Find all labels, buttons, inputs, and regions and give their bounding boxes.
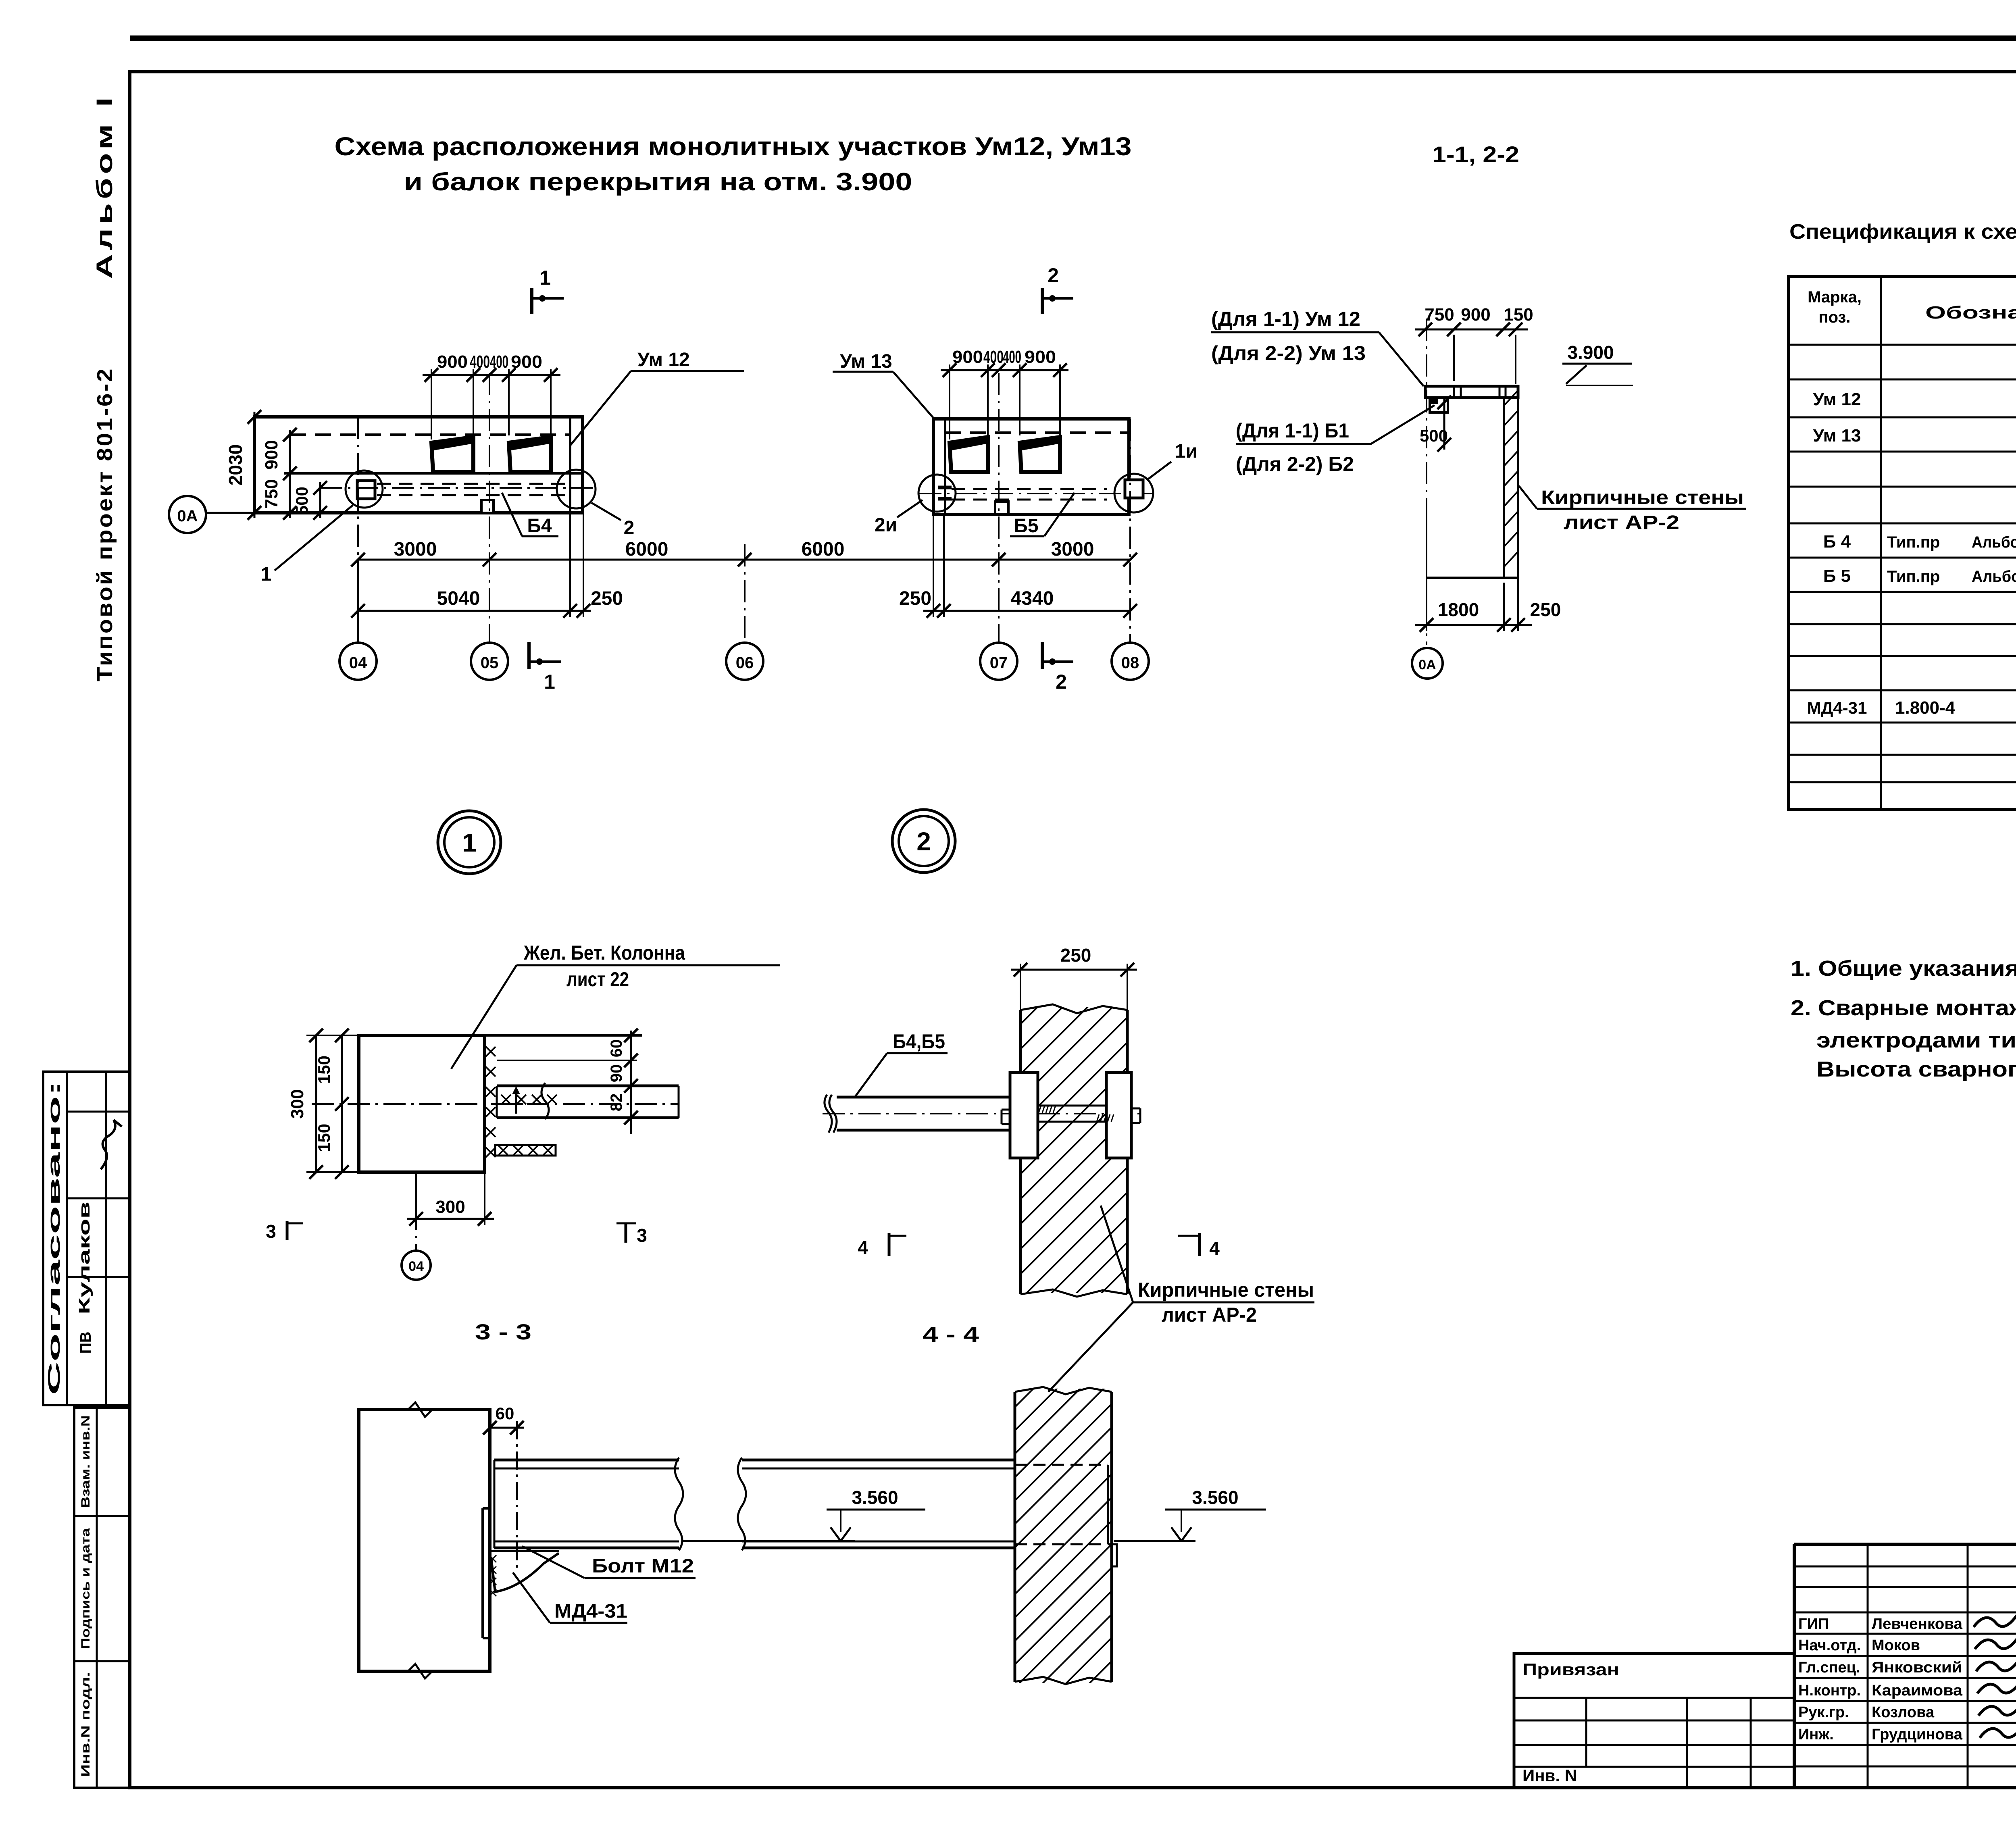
svg-text:Янковский: Янковский — [1872, 1659, 1962, 1676]
plan1 slab outline — [254, 417, 583, 513]
section3-3 bracket MD4-31 — [491, 1550, 559, 1552]
grid axis 08 dash-dot — [1129, 419, 1131, 643]
detail1 section mark 3 right — [616, 1222, 636, 1225]
section beam B1/B2 rect — [1430, 398, 1448, 412]
svg-text:1: 1 — [539, 267, 551, 289]
plan1 beam B4 hidden dashed lines — [377, 483, 568, 485]
svg-text:150: 150 — [314, 1056, 333, 1084]
svg-text:Ум 13: Ум 13 — [1813, 426, 1861, 446]
plan1 beam end rect in node 1 — [357, 481, 375, 499]
svg-text:(Для 1-1) Б1: (Для 1-1) Б1 — [1236, 419, 1349, 442]
svg-text:Б 4: Б 4 — [1823, 532, 1851, 552]
svg-text:Рук.гр.: Рук.гр. — [1798, 1704, 1849, 1721]
svg-text:250: 250 — [591, 588, 623, 609]
plan2 monolithic section Um13 quad A — [950, 437, 988, 472]
detail1 axis to grid circle 04 — [415, 1172, 417, 1252]
svg-text:Грудцинова: Грудцинова — [1872, 1726, 1963, 1743]
left stamp column box — [74, 1408, 130, 1788]
svg-text:3: 3 — [266, 1221, 276, 1242]
svg-text:1: 1 — [544, 671, 555, 693]
svg-text:3 - 3: 3 - 3 — [475, 1320, 531, 1344]
svg-text:400: 400 — [470, 352, 490, 372]
svg-text:Гл.спец.: Гл.спец. — [1798, 1659, 1860, 1676]
svg-text:2. Сварные монтажные соединени: 2. Сварные монтажные соединения элементо… — [1791, 996, 2016, 1020]
detail1 S-break in beam — [541, 1083, 549, 1119]
svg-text:и балок перекрытия на отм. 3.9: и балок перекрытия на отм. 3.900 — [404, 168, 912, 196]
grid circle 05 — [471, 643, 508, 680]
detail2 anchor plate left — [1010, 1072, 1038, 1158]
svg-text:900: 900 — [511, 352, 542, 372]
svg-text:0А: 0А — [1418, 657, 1436, 673]
svg-text:900: 900 — [262, 440, 281, 469]
svg-text:60: 60 — [608, 1039, 625, 1058]
svg-text:2030: 2030 — [225, 444, 246, 485]
plan2 slab outline — [933, 419, 1129, 514]
svg-text:Жел. Бет. Колонна: Жел. Бет. Колонна — [523, 941, 685, 964]
detail number circle 1 — [438, 811, 501, 874]
detail1 bottom x band — [495, 1145, 556, 1156]
svg-text:Б 5: Б 5 — [1823, 566, 1851, 586]
svg-text:08: 08 — [1121, 654, 1139, 672]
svg-text:60: 60 — [496, 1404, 514, 1423]
svg-text:(Для 2-2) Ум 13: (Для 2-2) Ум 13 — [1211, 342, 1366, 364]
section dim 500 — [1443, 398, 1445, 450]
grid circle 07 — [980, 643, 1017, 680]
svg-text:750: 750 — [1425, 305, 1454, 325]
svg-text:07: 07 — [990, 654, 1008, 672]
detail1 column hidden right edge dashed — [483, 1035, 486, 1172]
plan2 beam axis dash-dot — [919, 493, 1153, 494]
svg-text:2: 2 — [1048, 264, 1059, 287]
detail1 left dim 150/150 — [341, 1035, 343, 1172]
grid axis 07 dash-dot — [998, 373, 1000, 643]
svg-text:04: 04 — [349, 654, 367, 672]
detail2 bolt left stub — [1002, 1109, 1010, 1111]
detail1 anchor symbol — [515, 1089, 517, 1114]
left attachment box of title block — [1514, 1653, 1794, 1788]
plan2 dim line 250/4340 — [923, 610, 1130, 612]
plan1 small seat square on bottom edge — [481, 500, 494, 513]
svg-text:3000: 3000 — [394, 539, 437, 560]
plan1 dim 500 — [319, 482, 321, 518]
svg-text:лист 22: лист 22 — [566, 968, 629, 991]
svg-text:Моков: Моков — [1872, 1637, 1920, 1654]
svg-text:Подпись и дата: Подпись и дата — [79, 1528, 92, 1649]
svg-text:5040: 5040 — [437, 588, 480, 609]
plan1 inner dashed line top — [290, 433, 570, 436]
svg-text:150: 150 — [1504, 305, 1533, 325]
svg-text:500: 500 — [292, 487, 311, 515]
svg-text:Привязан: Привязан — [1522, 1660, 1619, 1679]
section3-3 beam right S-break — [675, 1458, 683, 1550]
svg-text:Б4,Б5: Б4,Б5 — [893, 1030, 945, 1053]
svg-text:(Для 1-1) Ум 12: (Для 1-1) Ум 12 — [1211, 308, 1360, 330]
plan1 top dim extension lines — [431, 369, 432, 439]
svg-text:(Для 2-2) Б2: (Для 2-2) Б2 — [1236, 453, 1354, 475]
axis dimension line 3000/6000/6000/3000 — [358, 559, 1130, 561]
svg-text:300: 300 — [435, 1197, 465, 1217]
plan2 inner dashed line top — [945, 431, 1128, 434]
section3-3 beam double lines — [494, 1459, 679, 1462]
section4-4 brick wall hatched — [1014, 1392, 1016, 1682]
svg-text:Левченкова: Левченкова — [1872, 1616, 1963, 1633]
section4-4 beam left S-break — [738, 1458, 746, 1550]
svg-text:Б5: Б5 — [1014, 515, 1038, 537]
svg-text:лист АР-2: лист АР-2 — [1162, 1304, 1257, 1326]
section mark 2 bottom — [1041, 642, 1044, 669]
detail1 x-marks vertical strip — [486, 1047, 496, 1056]
svg-text:Инв. N: Инв. N — [1522, 1766, 1577, 1785]
grid axis 04 dash-dot — [357, 417, 359, 643]
detail2 bolt right stub — [1131, 1108, 1140, 1110]
svg-text:6000: 6000 — [625, 539, 669, 560]
svg-text:3000: 3000 — [1051, 539, 1094, 560]
svg-text:400: 400 — [1003, 347, 1021, 367]
svg-text:Согласовано:: Согласовано: — [44, 1081, 63, 1395]
section3-3 bolt axis dash-dot — [516, 1421, 518, 1568]
svg-text:6000: 6000 — [802, 539, 845, 560]
svg-text:Высота сварного шва hш = 8 мм.: Высота сварного шва hш = 8 мм. — [1816, 1057, 2016, 1081]
svg-text:Нач.отд.: Нач.отд. — [1798, 1637, 1861, 1654]
svg-text:3.900: 3.900 — [1567, 342, 1614, 363]
svg-text:ПВ: ПВ — [77, 1332, 94, 1354]
section bottom line — [1427, 577, 1504, 579]
detail2 dim 250 — [1020, 964, 1021, 1010]
svg-text:Караимова: Караимова — [1872, 1682, 1963, 1699]
grid circle 04 — [357, 560, 359, 643]
svg-text:электродами типа Э42 по ГОСТ 9: электродами типа Э42 по ГОСТ 9467-75. — [1816, 1028, 2016, 1052]
section axis 0A dash-dot — [1426, 319, 1427, 645]
svg-text:250: 250 — [1060, 945, 1091, 966]
section dim 1800/250 — [1426, 513, 1427, 631]
plan2 small seat square on bottom edge — [995, 502, 1008, 514]
Согласовано box — [43, 1072, 130, 1405]
svg-text:2и: 2и — [875, 514, 897, 536]
svg-text:Кулаков: Кулаков — [76, 1202, 93, 1314]
spec table grid — [1789, 277, 2016, 810]
svg-text:Ум 13: Ум 13 — [840, 351, 892, 372]
plan1 wall extension lines right — [569, 513, 571, 617]
svg-text:1и: 1и — [1175, 441, 1198, 462]
svg-text:Инв.N подл.: Инв.N подл. — [79, 1672, 92, 1777]
plan1 wall inner face line — [569, 417, 571, 513]
grid circle 0A — [169, 496, 206, 533]
detail2 beam left break — [829, 1095, 837, 1133]
svg-text:Схема расположения монолитных: Схема расположения монолитных участков У… — [335, 132, 1132, 161]
plan2 node circle right — [1114, 474, 1153, 512]
detail1 bottom dim 300 — [415, 1172, 417, 1225]
plan1 node circle 1 (left) — [346, 471, 383, 508]
plan1 top dimension line 900 400 400 900 — [423, 374, 560, 376]
plan1 beam axis dash-dot — [320, 487, 593, 489]
plan1 monolithic section Um12 quad B — [509, 437, 551, 472]
svg-text:06: 06 — [736, 654, 754, 672]
detail1 top level line — [485, 1034, 642, 1037]
plan1 node circle 2 (right) — [557, 470, 596, 508]
svg-text:2: 2 — [1056, 671, 1067, 693]
svg-text:Взам. инв.N: Взам. инв.N — [79, 1415, 92, 1508]
svg-text:ГИП: ГИП — [1798, 1616, 1829, 1633]
svg-text:05: 05 — [481, 654, 499, 672]
plan1 left dim line 2030 — [254, 412, 256, 518]
detail2 bolt shaft — [1038, 1105, 1106, 1107]
plan2 beam B5 hidden dashed lines — [952, 488, 1107, 490]
svg-text:Н.контр.: Н.контр. — [1798, 1682, 1861, 1699]
detail2 centerline dash-dot — [823, 1113, 1141, 1114]
section top dim 750 900 150 — [1415, 329, 1528, 331]
section3-3 dim 60 — [490, 1427, 524, 1429]
detail2 beam plan — [837, 1096, 1016, 1099]
svg-text:Марка,: Марка, — [1808, 288, 1862, 306]
plan2 top dim extension lines — [949, 364, 950, 439]
detail2 brick wall hatched — [1019, 1010, 1022, 1294]
svg-text:4: 4 — [1209, 1238, 1220, 1259]
svg-text:Тип.пр: Тип.пр — [1887, 568, 1940, 585]
svg-text:Козлова: Козлова — [1872, 1704, 1935, 1721]
svg-text:Обозначение: Обозначение — [1925, 303, 2016, 323]
grid axis 05 dash-dot — [489, 373, 490, 643]
svg-text:Ум 12: Ум 12 — [637, 349, 690, 371]
svg-text:Б4: Б4 — [527, 515, 552, 537]
detail1 beam — [497, 1085, 679, 1087]
plan2 node circle left — [918, 475, 956, 512]
title block outer — [1794, 1543, 2016, 1546]
svg-text:400: 400 — [490, 352, 508, 372]
svg-text:500: 500 — [1420, 426, 1448, 445]
svg-text:4: 4 — [858, 1237, 868, 1258]
svg-text:250: 250 — [899, 588, 931, 609]
axis 0A line plan1 — [206, 512, 254, 514]
svg-text:2: 2 — [624, 517, 635, 539]
svg-text:Кирпичные стены: Кирпичные стены — [1541, 487, 1744, 508]
svg-text:лист АР-2: лист АР-2 — [1564, 512, 1679, 533]
detail1 column rect — [359, 1035, 485, 1172]
svg-text:900: 900 — [1025, 347, 1056, 367]
plan1 monolithic section Um12 quad A — [431, 437, 473, 472]
svg-text:900: 900 — [952, 347, 983, 367]
grid circle 0A section — [1412, 648, 1443, 679]
svg-text:1. Общие указания см. листы 1,: 1. Общие указания см. листы 1,2. — [1791, 956, 2016, 981]
svg-text:1800: 1800 — [1438, 599, 1479, 620]
plan1 dim line 900/750 — [289, 430, 291, 518]
svg-text:Тип.пр: Тип.пр — [1887, 533, 1940, 551]
detail1 x-marks horizontal row — [501, 1095, 511, 1104]
plan2 monolithic section Um13 quad B — [1020, 437, 1060, 472]
svg-text:Инж.: Инж. — [1798, 1726, 1834, 1743]
plan2 beam end rect in right node — [1125, 480, 1143, 498]
title block signature table — [1794, 1566, 2016, 1568]
svg-text:900: 900 — [1461, 305, 1490, 325]
svg-text:82: 82 — [608, 1093, 625, 1112]
grid circle 08 — [1112, 643, 1149, 680]
svg-text:Ум 12: Ум 12 — [1813, 389, 1861, 409]
svg-text:1.800-4: 1.800-4 — [1895, 698, 1956, 718]
svg-text:3.560: 3.560 — [852, 1487, 898, 1508]
svg-text:04: 04 — [408, 1259, 424, 1274]
detail1 left dim 300 — [315, 1035, 317, 1172]
svg-text:Альбом III КЖИ-Б4.000: Альбом III КЖИ-Б4.000 — [1972, 533, 2016, 551]
plan2 beam end stubs at wall — [938, 486, 952, 489]
svg-text:400: 400 — [983, 347, 1004, 367]
plan1 inner solid line — [284, 472, 583, 475]
svg-text:Альбом II КЖИ-Б5.000: Альбом II КЖИ-Б5.000 — [1972, 568, 2016, 585]
svg-text:3: 3 — [637, 1225, 647, 1246]
plan2 top dimension line 900 400 400 900 — [941, 369, 1068, 371]
section4-4 hook below beam in wall — [1108, 1544, 1117, 1566]
section brick wall hatched — [1504, 398, 1518, 578]
svg-text:3.560: 3.560 — [1192, 1487, 1238, 1508]
svg-text:2: 2 — [916, 827, 931, 856]
detail number circle 2 — [892, 810, 955, 873]
svg-text:МД4-31: МД4-31 — [1807, 698, 1867, 717]
signatures squiggles — [1974, 1610, 2016, 1627]
section slab top bar — [1425, 386, 1518, 398]
section mark 1 bottom — [527, 642, 531, 669]
svg-text:1: 1 — [462, 828, 477, 857]
svg-text:90: 90 — [608, 1064, 625, 1083]
svg-text:4340: 4340 — [1011, 588, 1054, 609]
svg-text:Альбом I: Альбом I — [92, 94, 117, 279]
svg-text:поз.: поз. — [1818, 308, 1850, 326]
grid circle 06 — [744, 544, 746, 643]
svg-text:750: 750 — [262, 479, 281, 508]
detail2 section mark 4 right — [1178, 1235, 1200, 1237]
svg-text:150: 150 — [314, 1124, 333, 1152]
svg-text:1: 1 — [261, 564, 272, 585]
detail1 right dim 60/90/82 — [630, 1031, 632, 1134]
section slab joint notches — [1453, 386, 1455, 398]
svg-text:900: 900 — [437, 352, 468, 372]
detail2 anchor plate right — [1106, 1072, 1131, 1158]
svg-text:0А: 0А — [177, 507, 198, 525]
svg-text:Типовой проект 801-6-2: Типовой проект 801-6-2 — [93, 367, 117, 681]
svg-text:Спецификация к схеме расположе: Спецификация к схеме расположения моноли… — [1789, 220, 2016, 244]
svg-text:МД4-31: МД4-31 — [554, 1601, 627, 1622]
svg-text:250: 250 — [1530, 599, 1561, 620]
section3-3 column — [359, 1410, 490, 1671]
svg-text:4 - 4: 4 - 4 — [923, 1322, 979, 1347]
svg-text:1-1, 2-2: 1-1, 2-2 — [1432, 142, 1519, 167]
section3-3 MD plate on column face — [481, 1508, 484, 1638]
plan2 wall inner face line — [944, 419, 946, 514]
sheet top thick border line — [130, 35, 2016, 41]
plan1 dim line 5040/250 — [358, 610, 591, 612]
svg-text:Болт М12: Болт М12 — [592, 1556, 694, 1577]
svg-text:300: 300 — [287, 1089, 307, 1118]
section4-4 beam double lines — [742, 1459, 1015, 1462]
section4-4 beam hidden dashed inside wall — [1015, 1464, 1108, 1466]
signature Кулаков — [101, 1120, 122, 1169]
detail1 centerline dash-dot — [312, 1103, 679, 1105]
svg-text:Кирпичные стены: Кирпичные стены — [1138, 1279, 1314, 1301]
